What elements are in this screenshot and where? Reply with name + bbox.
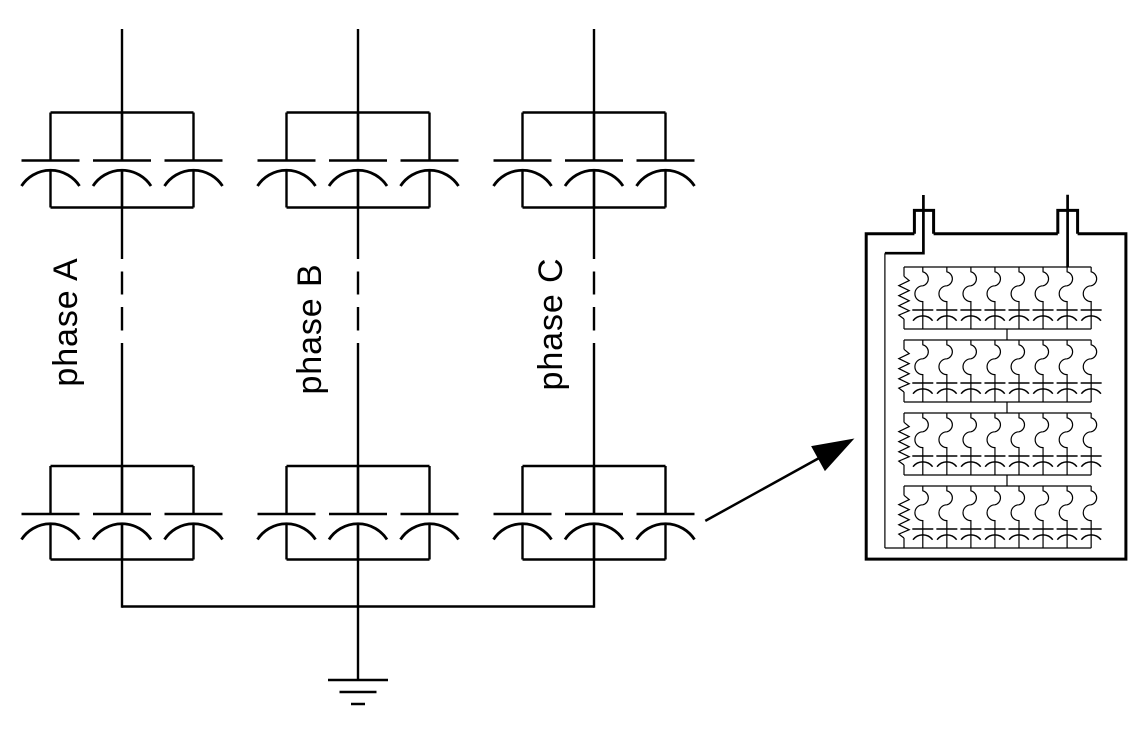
svg-text:phase B: phase B bbox=[291, 263, 329, 394]
svg-text:phase A: phase A bbox=[47, 257, 85, 386]
svg-text:phase C: phase C bbox=[532, 258, 570, 391]
